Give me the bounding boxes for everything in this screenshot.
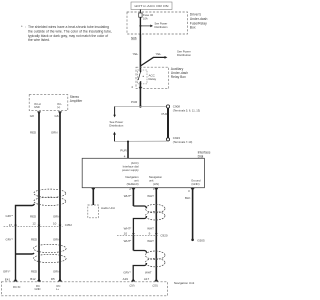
svg-text:Fuse/Relay: Fuse/Relay [190,21,207,25]
svg-text:Distribution: Distribution [155,25,169,29]
connector C908 ring [166,105,169,108]
amp pin G8 [30,112,41,118]
jog out of shield oval 1 [133,216,146,235]
svg-text:(SHIELD): (SHIELD) [127,182,139,186]
svg-text:D5: D5 [51,277,55,281]
junction to dial pin 4 [127,141,129,143]
svg-text:power supply: power supply [122,168,139,172]
svg-text:GND: GND [34,105,40,109]
dial pin terminal bars [92,188,195,191]
svg-text:The shielded wires have a heat: The shielded wires have a heat-shrunk tu… [28,25,109,29]
relay box label [171,67,188,79]
amp pin text right [57,102,62,109]
wire RED amp upper [38,112,40,281]
amp pin text left [34,102,41,109]
svg-text:(LIN): (LIN) [153,182,159,186]
wire WHT pin1 [155,188,157,278]
svg-text:Navigation Unit: Navigation Unit [174,281,195,285]
wire PUR relay to junction [139,82,141,107]
row terminal wedges C920 [132,233,158,235]
jog into shield oval 1 [133,206,146,208]
svg-text:G6: G6 [55,114,59,118]
svg-text:N06: N06 [131,36,137,40]
svg-text:Driver's: Driver's [190,13,202,17]
wire BLK pin3 to ground [192,188,194,239]
up arrow see power distribution [113,132,116,142]
dial text: navigation unit lin [149,175,163,186]
svg-text:Distribution: Distribution [177,53,191,57]
svg-text:10: 10 [124,231,128,235]
svg-text:RED: RED [30,215,36,219]
junction in fuse box [139,25,141,27]
svg-text:G8: G8 [30,114,34,118]
svg-text:A19: A19 [123,277,129,281]
svg-text:(+): (+) [57,105,60,109]
nav pin B12 [30,277,41,281]
shield drain wire from oval 1 [16,204,35,227]
hot-in-acc label box [131,2,172,10]
svg-text:WHT: WHT [147,194,154,198]
svg-text:RED: RED [31,270,37,274]
down arrow see power distribution [109,107,123,128]
dial pin to audio unit wire [92,188,94,205]
svg-text::: : [25,25,26,29]
twisted shield oval 2 (middle) [145,251,165,267]
inline connector row C920 [117,231,168,237]
wire WHT* pin2 upper [132,188,134,206]
wire from fuse down inside fuse box [139,17,141,34]
svg-text:GRN: GRN [53,270,59,274]
wire GRN amp upper [59,112,61,281]
stereo amplifier box (dashed) [29,95,68,111]
svg-text:PUR: PUR [120,149,127,153]
svg-text:the wire listed.: the wire listed. [28,38,50,42]
svg-text:the outside of the wire. The: the outside of the wire. The color of th… [28,29,112,33]
jog into shield oval 2 [133,251,146,253]
svg-text:12: 12 [32,221,36,225]
svg-text:Amplifier: Amplifier [70,99,83,103]
shield drain tap to oval 2 [16,253,35,254]
nav pin text RC GND [35,284,41,291]
svg-text:HOT in ACC OR ON: HOT in ACC OR ON [135,4,169,8]
nav pin text RC L+ [56,284,60,291]
svg-text:typically black or dark gray,: typically black or dark gray, may not ma… [28,34,108,38]
driver's under-dash fuse/relay box (dashed) [127,12,188,34]
relay box bottom terminal [139,86,142,88]
page ref label N06 [131,36,137,40]
dial text: ground [191,179,201,187]
svg-text:GRY*: GRY* [6,238,14,242]
svg-text:GRY*: GRY* [123,270,131,274]
svg-text:GRY*: GRY* [6,214,14,218]
audio unit box (dashed) [88,205,99,218]
connector bar C908-C923 [167,108,169,138]
interface dial box [82,158,204,187]
svg-text:Relay Box: Relay Box [171,75,186,79]
svg-text:GRN: GRN [53,215,59,219]
wire PUR to dial pin 4 [127,142,129,159]
svg-text:WHT: WHT [145,270,152,274]
C908 label [173,104,200,112]
svg-text:(Terminals 5, 6, 11, 13): (Terminals 5, 6, 11, 13) [173,108,200,112]
svg-text:WHT: WHT [147,239,154,243]
C923 label [173,136,193,144]
svg-text:B12: B12 [30,277,36,281]
svg-text:BLK: BLK [185,196,191,200]
fuse/relay box label [190,13,208,30]
horizontal wire from C923 [115,140,167,142]
svg-text:WHT*: WHT* [124,239,133,243]
svg-text:GRN: GRN [53,238,59,242]
svg-text:L+: L+ [56,287,59,291]
svg-text:GND: GND [35,287,41,291]
svg-text:WHT*: WHT* [124,226,133,230]
svg-text:Under-dash: Under-dash [190,17,208,21]
twisted shield oval 1 (middle) [145,204,165,220]
branch diagonal to power distribution arrow [140,50,191,67]
svg-text:Relay: Relay [149,77,157,81]
svg-text:C352: C352 [65,223,73,227]
svg-text:RED: RED [30,130,36,134]
svg-text:Box: Box [190,26,196,30]
wire from hot box to fuse [139,10,141,14]
nav pin A19 [123,277,135,281]
stereo amplifier label [70,95,83,103]
svg-text:GRY*: GRY* [3,270,11,274]
svg-text:WHT*: WHT* [124,194,133,198]
wire WHT* below row [132,235,134,250]
svg-text:C923: C923 [173,136,181,140]
svg-text:RED: RED [31,238,37,242]
fuse 32 [139,13,154,20]
junction node [139,105,141,107]
svg-text:10: 10 [53,221,57,225]
svg-text:10A: 10A [143,16,148,20]
inline connector row C352 [4,221,73,227]
svg-text:WHT: WHT [147,226,154,230]
ACC relay (dashed sub-box) [138,70,157,84]
svg-text:C908: C908 [173,104,181,108]
svg-text:(Terminals 7-10): (Terminals 7-10) [173,140,193,144]
horizontal wire to C908 [115,106,167,108]
dial text: power supply [122,161,139,172]
nav pin A17 [144,277,158,281]
amp pin G6 [55,112,62,118]
wire GRY* below row [15,227,17,281]
interface dial label [198,151,211,159]
svg-text:G505: G505 [197,239,205,243]
dial text: navigation unit shield [125,175,139,186]
svg-text:C920: C920 [160,234,168,238]
svg-text:YEL: YEL [133,52,139,56]
navigation unit box (dashed) [1,282,167,296]
svg-text:17: 17 [9,223,13,227]
svg-text:GRN: GRN [51,130,57,134]
connector C923 ring [166,138,169,141]
arrow to power distribution (in fuse box) [140,22,168,29]
nav pin E41 [5,278,17,282]
svg-text:PUR: PUR [131,100,138,104]
svg-text:Fuse 32: Fuse 32 [143,13,154,17]
svg-text:(2G): (2G) [153,284,158,288]
svg-text:E41: E41 [5,278,11,282]
auxiliary under-dash relay box (dashed) [136,67,169,88]
ground G505 [191,239,205,243]
svg-text:(2V): (2V) [130,284,135,288]
shield drain out of oval 2 [133,263,146,281]
svg-text:YEL: YEL [156,52,162,56]
row terminal wedges C352 [14,225,61,227]
wire YEL fuse box to relay box [139,34,141,72]
twisted shield oval 2 (left) [34,244,67,262]
svg-text:RC IN: RC IN [13,285,20,289]
svg-text:Audio Unit: Audio Unit [101,206,115,210]
twisted shield oval 1 (left) [34,189,66,205]
svg-text:(GND): (GND) [191,182,199,186]
nav pin D5 [51,277,62,281]
svg-text:A17: A17 [144,277,150,281]
svg-text:Distribution: Distribution [109,124,123,128]
